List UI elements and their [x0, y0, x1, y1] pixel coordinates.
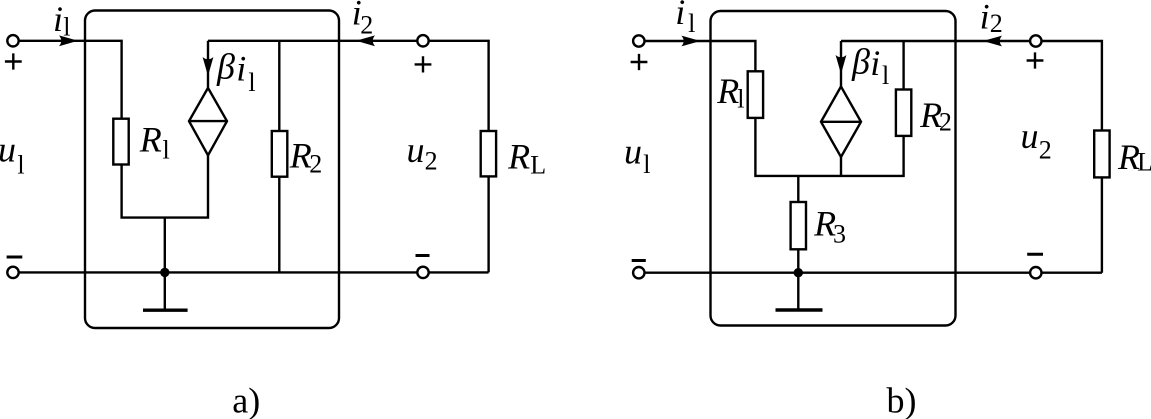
svg-text:b): b) [887, 381, 917, 419]
svg-text:2: 2 [990, 9, 1003, 38]
svg-text:L: L [530, 151, 546, 180]
svg-text:2: 2 [309, 149, 322, 178]
svg-text:l: l [248, 68, 255, 97]
svg-text:2: 2 [1039, 135, 1052, 164]
svg-text:a): a) [232, 381, 260, 419]
svg-text:l: l [688, 9, 695, 38]
svg-text:β: β [851, 42, 870, 82]
svg-text:l: l [737, 84, 744, 113]
svg-text:i: i [870, 43, 880, 83]
svg-text:l: l [643, 150, 650, 179]
svg-text:2: 2 [425, 146, 438, 175]
svg-text:l: l [63, 12, 70, 41]
svg-text:2: 2 [360, 11, 373, 40]
svg-text:l: l [163, 135, 170, 164]
svg-text:L: L [1137, 148, 1151, 177]
svg-text:u: u [0, 130, 16, 170]
svg-text:R: R [507, 136, 530, 176]
svg-text:i: i [236, 49, 246, 89]
svg-text:l: l [882, 61, 889, 90]
svg-text:i: i [53, 0, 63, 39]
svg-text:u: u [1021, 116, 1039, 156]
svg-text:u: u [624, 132, 642, 172]
svg-text:R: R [139, 120, 162, 160]
svg-text:β: β [216, 47, 235, 87]
svg-text:u: u [407, 130, 425, 170]
svg-text:i: i [675, 0, 685, 32]
svg-text:l: l [17, 150, 24, 179]
svg-text:2: 2 [939, 107, 952, 136]
svg-text:i: i [980, 0, 990, 37]
svg-text:R: R [716, 71, 739, 111]
svg-text:3: 3 [833, 219, 846, 248]
